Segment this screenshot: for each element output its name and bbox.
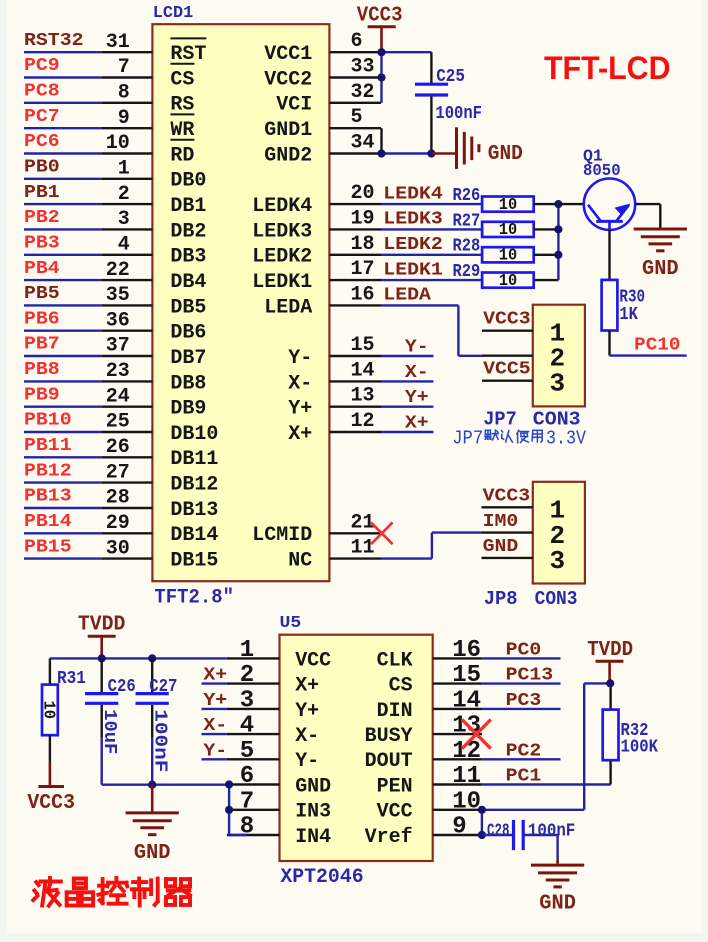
pin 23 (DB8) left xyxy=(102,380,153,382)
svg-text:PB9: PB9 xyxy=(24,385,60,405)
pin 17 (LEDK1) right xyxy=(329,279,381,281)
svg-text:Y-: Y- xyxy=(288,347,312,370)
wire net RST32 xyxy=(24,51,102,53)
CJK char 默 xyxy=(485,429,490,431)
node junction pin33 xyxy=(377,73,385,81)
svg-text:LEDA: LEDA xyxy=(264,296,312,319)
svg-text:1: 1 xyxy=(240,637,254,664)
CJK char 制 xyxy=(133,880,146,884)
wire collector to Q1 xyxy=(558,203,583,205)
svg-text:25: 25 xyxy=(106,411,130,434)
svg-text:19: 19 xyxy=(351,207,375,230)
capacitor C26 10uF xyxy=(100,658,102,692)
pin 3 JP7 xyxy=(482,380,533,382)
pin 1 JP7 xyxy=(482,330,533,332)
connector JP8 CON3 body xyxy=(533,482,585,584)
wire emitter to ground xyxy=(635,203,660,205)
capacitor C27 100nF xyxy=(151,658,153,692)
svg-text:8: 8 xyxy=(240,814,254,841)
svg-text:VCC3: VCC3 xyxy=(27,792,75,815)
svg-text:CLK: CLK xyxy=(377,649,413,672)
pin 12 (X+) right xyxy=(329,431,381,433)
svg-text:PC10: PC10 xyxy=(634,336,680,356)
pin 2 (DB1) left xyxy=(102,203,153,205)
svg-text:12: 12 xyxy=(351,410,375,433)
svg-text:DIN: DIN xyxy=(377,700,413,723)
wire VCC net to C25 xyxy=(382,51,432,53)
wire net LEDA xyxy=(381,304,458,306)
svg-text:GND: GND xyxy=(295,775,331,798)
wire VCC to Vref tie xyxy=(481,810,483,835)
svg-text:LEDK4: LEDK4 xyxy=(252,195,312,218)
pin 13 (Y+) right xyxy=(329,406,381,408)
svg-text:2: 2 xyxy=(240,662,254,689)
svg-text:DB1: DB1 xyxy=(170,195,206,218)
svg-text:X-: X- xyxy=(288,372,312,395)
svg-text:LEDK1: LEDK1 xyxy=(252,271,312,294)
pin 30 (DB15) left xyxy=(102,557,153,559)
svg-text:5: 5 xyxy=(240,738,254,765)
wire net PB14 xyxy=(24,532,102,534)
svg-text:PB0: PB0 xyxy=(24,158,60,178)
svg-text:8: 8 xyxy=(118,82,130,105)
wire TVDD rail xyxy=(50,657,227,659)
svg-text:TVDD: TVDD xyxy=(587,639,633,662)
capacitor C25 xyxy=(430,52,432,84)
ground xyxy=(531,864,584,867)
svg-text:DB6: DB6 xyxy=(170,322,206,345)
svg-text:PC8: PC8 xyxy=(24,82,60,102)
svg-text:16: 16 xyxy=(452,637,481,664)
wire net PC13 xyxy=(482,682,561,684)
svg-text:GND: GND xyxy=(642,258,679,281)
pin 16 (LEDA) right xyxy=(329,304,381,306)
svg-text:DB2: DB2 xyxy=(170,220,206,243)
node junction TVDD/R31/C26 xyxy=(98,654,106,662)
svg-text:DB14: DB14 xyxy=(170,524,218,547)
svg-text:Y+: Y+ xyxy=(288,398,312,421)
svg-text:TFT2.8": TFT2.8" xyxy=(154,587,234,610)
pin 4 (X-) xyxy=(227,733,280,735)
pin 1 JP8 xyxy=(482,506,533,508)
pin 1 (VCC) xyxy=(227,657,280,659)
wire net PB5 xyxy=(24,304,102,306)
svg-text:18: 18 xyxy=(351,233,375,256)
wire net PC2 xyxy=(482,758,561,760)
pin 29 (DB14) left xyxy=(102,532,153,534)
svg-text:X+: X+ xyxy=(288,423,312,446)
pin 26 (DB11) left xyxy=(102,456,153,458)
CJK char 晶 xyxy=(74,877,86,881)
svg-text:IN3: IN3 xyxy=(295,801,331,824)
wire net PB11 xyxy=(24,456,102,458)
wire net X- (touch) xyxy=(202,733,227,735)
svg-text:LEDK3: LEDK3 xyxy=(252,220,312,243)
svg-text:14: 14 xyxy=(452,687,481,714)
overline WR xyxy=(170,113,194,115)
wire R28 to base bus xyxy=(534,254,559,256)
svg-text:C25: C25 xyxy=(436,67,465,87)
pin 3 (Y+) xyxy=(227,708,280,710)
svg-text:DB5: DB5 xyxy=(170,296,206,319)
wire net PB7 xyxy=(24,355,102,357)
svg-text:DB11: DB11 xyxy=(170,448,218,471)
pin 37 (DB7) left xyxy=(102,355,153,357)
pin 15 (Y-) right xyxy=(329,355,381,357)
svg-text:100nF: 100nF xyxy=(150,709,170,772)
svg-text:DB10: DB10 xyxy=(170,423,218,446)
node junction pin6 xyxy=(225,780,233,788)
node junction pin34 xyxy=(377,149,385,157)
svg-text:PB6: PB6 xyxy=(24,309,60,329)
power ground GND sideways xyxy=(431,152,456,155)
pin 1 (DB0) left xyxy=(102,178,153,180)
wire net LEDK3 xyxy=(381,228,482,230)
svg-text:15: 15 xyxy=(452,662,481,689)
svg-text:Y+: Y+ xyxy=(405,388,429,408)
resistor R26 10 xyxy=(482,197,534,212)
wire PEN to R32 xyxy=(482,783,611,785)
connector JP7 CON3 body xyxy=(533,305,585,407)
no-connect X on BUSY xyxy=(462,720,491,749)
svg-text:X+: X+ xyxy=(295,675,319,698)
svg-text:3.3V: 3.3V xyxy=(546,428,587,450)
svg-text:GND: GND xyxy=(483,537,519,557)
pin 8 (RS) left xyxy=(102,102,153,104)
svg-text:GND: GND xyxy=(488,143,523,166)
svg-text:GND: GND xyxy=(539,893,576,916)
node junction R26 xyxy=(554,200,562,208)
svg-text:34: 34 xyxy=(351,132,375,155)
svg-text:14: 14 xyxy=(351,359,375,382)
svg-text:9: 9 xyxy=(118,107,130,130)
wire net PC6 xyxy=(24,152,102,154)
svg-text:1: 1 xyxy=(118,158,130,181)
svg-text:NC: NC xyxy=(288,550,312,573)
svg-text:VCC: VCC xyxy=(295,649,331,672)
svg-text:PC3: PC3 xyxy=(506,691,542,711)
svg-text:100nF: 100nF xyxy=(435,104,482,124)
svg-text:PB13: PB13 xyxy=(24,487,72,507)
svg-text:23: 23 xyxy=(106,360,130,383)
wire NC pin11 to JP8 pin2 xyxy=(381,557,432,559)
overline CS xyxy=(170,63,194,65)
wire R26 to base bus xyxy=(534,203,559,205)
node junction C25/GND wire xyxy=(427,149,435,157)
svg-text:15: 15 xyxy=(351,334,375,357)
no-connect X on pin 21 xyxy=(371,522,393,544)
svg-text:16: 16 xyxy=(351,283,375,306)
svg-text:DB15: DB15 xyxy=(170,550,218,573)
node junction TVDD/R32 xyxy=(606,679,614,687)
svg-text:TVDD: TVDD xyxy=(78,614,126,637)
wire net PB6 xyxy=(24,330,102,332)
svg-text:PB10: PB10 xyxy=(24,411,72,431)
wire net LEDK2 xyxy=(381,254,482,256)
svg-text:PB8: PB8 xyxy=(24,360,60,380)
pin 21 (LCMID) right xyxy=(329,532,381,534)
svg-text:DB3: DB3 xyxy=(170,246,206,269)
svg-text:4: 4 xyxy=(118,234,130,257)
power port VCC3 down xyxy=(49,762,52,787)
svg-text:5: 5 xyxy=(351,106,363,129)
wire R31 to VCC3 xyxy=(49,735,51,762)
node junction C27 top xyxy=(148,654,156,662)
pin 9 (Vref) xyxy=(433,834,482,836)
svg-text:LCD1: LCD1 xyxy=(153,4,193,23)
svg-text:GND2: GND2 xyxy=(264,144,312,167)
svg-text:U5: U5 xyxy=(280,614,302,633)
pin 24 (DB9) left xyxy=(102,406,153,408)
pin 5 (GND1) right xyxy=(329,127,381,129)
wire net X+ xyxy=(381,431,433,433)
svg-text:8050: 8050 xyxy=(583,162,621,181)
pin 34 (GND2) right xyxy=(329,152,381,154)
pin 28 (DB13) left xyxy=(102,507,153,509)
svg-text:PB5: PB5 xyxy=(24,284,60,304)
svg-text:6: 6 xyxy=(351,30,363,53)
svg-text:PB7: PB7 xyxy=(24,335,60,355)
CJK char 认 xyxy=(502,431,503,432)
wire net PC9 xyxy=(24,76,102,78)
svg-text:LEDK1: LEDK1 xyxy=(383,260,443,280)
svg-text:10: 10 xyxy=(499,196,517,215)
svg-text:3: 3 xyxy=(550,546,566,576)
svg-text:24: 24 xyxy=(106,385,130,408)
svg-text:PC6: PC6 xyxy=(24,132,60,152)
svg-text:R27: R27 xyxy=(453,211,481,231)
pin 16 (CLK) xyxy=(433,657,482,659)
svg-text:7: 7 xyxy=(240,788,254,815)
wire net PB8 xyxy=(24,380,102,382)
svg-text:20: 20 xyxy=(351,182,375,205)
svg-text:VCI: VCI xyxy=(276,94,312,117)
svg-text:Y-: Y- xyxy=(203,741,227,761)
wire rail down to R31 xyxy=(49,658,51,684)
wire R30 to PC10 xyxy=(608,331,610,356)
svg-text:22: 22 xyxy=(106,259,130,282)
svg-text:X+: X+ xyxy=(405,414,429,434)
svg-text:PB12: PB12 xyxy=(24,461,72,481)
svg-text:CON3: CON3 xyxy=(535,588,578,610)
pin 33 (VCC2) right xyxy=(329,76,381,78)
wire net PB4 xyxy=(24,279,102,281)
wire net Y+ (touch) xyxy=(202,708,227,710)
power ground below caps xyxy=(151,785,154,812)
svg-text:GND1: GND1 xyxy=(264,119,312,142)
ground xyxy=(634,228,687,231)
wire R29 to base bus xyxy=(534,279,559,281)
svg-text:6: 6 xyxy=(240,763,254,790)
svg-text:DB7: DB7 xyxy=(170,347,206,370)
svg-text:PEN: PEN xyxy=(377,775,413,798)
svg-text:LEDK2: LEDK2 xyxy=(252,246,312,269)
svg-text:VCC1: VCC1 xyxy=(264,43,312,66)
pin 20 (LEDK4) right xyxy=(329,203,381,205)
svg-text:R29: R29 xyxy=(453,262,481,282)
pin 3 (DB2) left xyxy=(102,228,153,230)
svg-text:PC9: PC9 xyxy=(24,56,60,76)
pin 11 (NC) right xyxy=(329,557,381,559)
pin 3 JP8 xyxy=(482,557,533,559)
svg-text:37: 37 xyxy=(106,335,130,358)
svg-text:29: 29 xyxy=(106,512,130,535)
node junction R28 xyxy=(554,251,562,259)
svg-text:IN4: IN4 xyxy=(295,826,331,849)
svg-text:VCC3: VCC3 xyxy=(357,5,403,28)
svg-text:PC7: PC7 xyxy=(24,107,60,127)
svg-text:PC0: PC0 xyxy=(506,640,542,660)
svg-text:LEDA: LEDA xyxy=(383,286,431,306)
pin 8 (IN4) xyxy=(227,834,280,836)
svg-text:26: 26 xyxy=(106,436,130,459)
svg-text:DOUT: DOUT xyxy=(365,750,413,773)
node junction pin7 xyxy=(225,806,233,814)
svg-text:PC2: PC2 xyxy=(506,741,542,761)
pin 6 (VCC1) right xyxy=(329,51,381,53)
pin 27 (DB12) left xyxy=(102,481,153,483)
svg-text:CS: CS xyxy=(170,68,194,91)
wire net X- xyxy=(381,380,433,382)
pin 2 JP8 xyxy=(482,531,533,533)
svg-text:2: 2 xyxy=(118,183,130,206)
wire net PB15 xyxy=(24,557,102,559)
svg-text:LCMID: LCMID xyxy=(252,524,312,547)
svg-text:PB15: PB15 xyxy=(24,537,72,557)
svg-text:3: 3 xyxy=(118,208,130,231)
wire net Y- (touch) xyxy=(202,758,227,760)
svg-text:VCC5: VCC5 xyxy=(483,360,531,380)
svg-text:LEDK2: LEDK2 xyxy=(383,235,443,255)
pin 19 (LEDK3) right xyxy=(329,228,381,230)
pin 2 JP7 xyxy=(482,355,533,357)
svg-text:IM0: IM0 xyxy=(483,512,519,532)
svg-text:VCC2: VCC2 xyxy=(264,68,312,91)
svg-text:JP8: JP8 xyxy=(484,588,518,610)
wire net Y+ xyxy=(381,406,433,408)
pin 7 (CS) left xyxy=(102,76,153,78)
pin 36 (DB6) left xyxy=(102,330,153,332)
wire net PC7 xyxy=(24,127,102,129)
pin 4 (DB3) left xyxy=(102,254,153,256)
svg-text:10: 10 xyxy=(499,221,517,240)
svg-text:11: 11 xyxy=(351,537,375,560)
svg-text:RS: RS xyxy=(170,94,194,117)
pin 12 (DOUT) xyxy=(433,758,482,760)
overline RD xyxy=(170,139,194,141)
svg-text:DB9: DB9 xyxy=(170,398,206,421)
svg-text:LEDK4: LEDK4 xyxy=(383,184,443,204)
wire GND rail xyxy=(102,784,229,786)
svg-text:VCC3: VCC3 xyxy=(483,487,531,507)
wire VCC net vertical pins 6-33-32 xyxy=(380,52,382,103)
node junction pin6/VCC3 xyxy=(377,48,385,56)
svg-text:10: 10 xyxy=(39,701,58,719)
resistor R30 1K xyxy=(602,280,618,331)
svg-text:DB0: DB0 xyxy=(170,170,206,193)
CJK char 用 xyxy=(533,429,542,431)
svg-text:VCC: VCC xyxy=(377,801,413,824)
pin 25 (DB10) left xyxy=(102,431,153,433)
wire net PB10 xyxy=(24,431,102,433)
svg-text:31: 31 xyxy=(106,31,130,54)
wire net X+ (touch) xyxy=(202,682,227,684)
svg-text:BUSY: BUSY xyxy=(365,725,413,748)
svg-text:C26: C26 xyxy=(108,677,136,697)
resistor R28 10 xyxy=(482,247,534,262)
svg-text:RD: RD xyxy=(170,144,194,167)
svg-text:100nF: 100nF xyxy=(528,822,575,842)
svg-text:33: 33 xyxy=(351,56,375,79)
pin 14 (DIN) xyxy=(433,708,482,710)
svg-text:C28: C28 xyxy=(487,822,510,842)
svg-text:35: 35 xyxy=(106,284,130,307)
svg-text:Y-: Y- xyxy=(405,338,429,358)
pin 11 (PEN) xyxy=(433,783,482,785)
node junction pin10 xyxy=(478,806,486,814)
wire net PB3 xyxy=(24,254,102,256)
svg-text:PB11: PB11 xyxy=(24,436,72,456)
IC LCD1 TFT2.8" body xyxy=(152,24,329,581)
ground xyxy=(126,811,179,814)
svg-text:R31: R31 xyxy=(57,669,86,689)
pin 5 (Y-) xyxy=(227,758,280,760)
svg-text:Vref: Vref xyxy=(365,826,413,849)
wire base bus vertical xyxy=(557,204,559,280)
svg-text:7: 7 xyxy=(118,56,130,79)
pin 9 (WR) left xyxy=(102,127,153,129)
svg-text:XPT2046: XPT2046 xyxy=(280,866,363,889)
pin 31 (RST) left xyxy=(102,51,153,53)
transistor Q1 8050 xyxy=(584,179,635,230)
pin 22 (DB4) left xyxy=(102,279,153,281)
svg-text:13: 13 xyxy=(351,385,375,408)
svg-text:4: 4 xyxy=(240,713,254,740)
wire to ground xyxy=(556,860,559,864)
pin 35 (DB5) left xyxy=(102,304,153,306)
pin 10 (RD) left xyxy=(102,152,153,154)
wire net PC3 xyxy=(482,708,561,710)
svg-text:3: 3 xyxy=(240,687,254,714)
wire GND to pins 6-7-8 xyxy=(228,785,230,835)
svg-text:27: 27 xyxy=(106,461,130,484)
svg-text:Y+: Y+ xyxy=(295,700,319,723)
node junction pin9 xyxy=(478,831,486,839)
svg-text:C27: C27 xyxy=(149,677,177,697)
wire net PB0 xyxy=(24,178,102,180)
svg-text:9: 9 xyxy=(452,814,466,841)
wire net PB12 xyxy=(24,481,102,483)
svg-text:GND: GND xyxy=(134,842,171,865)
svg-text:PB3: PB3 xyxy=(24,234,60,254)
svg-text:CS: CS xyxy=(389,675,413,698)
wire GND net to C25 bottom xyxy=(382,152,432,154)
svg-text:10: 10 xyxy=(499,247,517,266)
svg-text:X-: X- xyxy=(295,725,319,748)
svg-text:100K: 100K xyxy=(621,738,659,758)
svg-text:10: 10 xyxy=(106,132,130,155)
wire TVDD to R32 and VCC xyxy=(609,683,611,709)
wire net LEDK4 xyxy=(381,203,482,205)
svg-text:1K: 1K xyxy=(619,305,638,325)
wire base to R30 xyxy=(608,230,610,280)
svg-text:X+: X+ xyxy=(203,666,227,686)
CJK char 使 xyxy=(517,430,519,434)
pin 7 (IN3) xyxy=(227,809,280,811)
resistor R29 10 xyxy=(482,273,534,288)
pin 14 (X-) right xyxy=(329,380,381,382)
svg-text:3: 3 xyxy=(550,368,566,398)
